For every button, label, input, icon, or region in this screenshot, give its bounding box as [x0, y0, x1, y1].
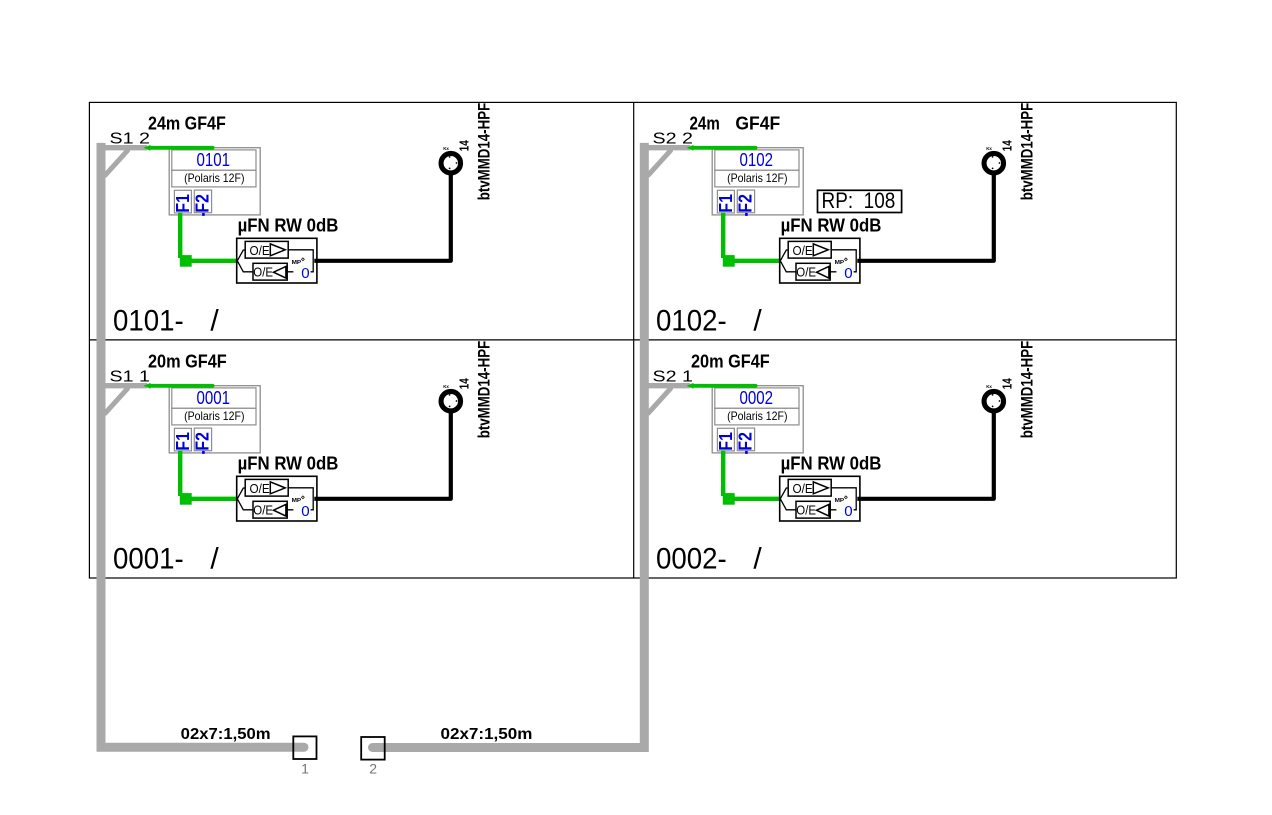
svg-text:S2 1: S2 1: [653, 368, 694, 385]
tap btvMMD14-HPF: [441, 146, 461, 173]
svg-text:0: 0: [844, 504, 852, 520]
svg-text:O/E: O/E: [793, 481, 813, 496]
svg-text:MP: MP: [835, 260, 845, 266]
wire fiber junction to amplifier input: [190, 259, 237, 263]
port F1 of closure 0101: [173, 190, 193, 216]
svg-text:F2: F2: [736, 432, 756, 451]
svg-text:btvMMD14-HPF: btvMMD14-HPF: [1018, 103, 1036, 201]
svg-text:0001-: 0001-: [113, 543, 184, 576]
mast S2 1 crossarm: [642, 386, 690, 414]
svg-text:20m GF4F: 20m GF4F: [691, 352, 770, 372]
svg-text:GF4F: GF4F: [735, 114, 780, 134]
svg-text:O/E: O/E: [796, 264, 816, 279]
junction box 1: [293, 736, 316, 759]
svg-text:btvMMD14-HPF: btvMMD14-HPF: [475, 341, 493, 439]
label measurement point MP: [292, 258, 305, 266]
svg-text:O/E: O/E: [253, 264, 273, 279]
wire coax amplifier to tap: [314, 412, 451, 499]
reference point box RP: 108: [818, 188, 902, 213]
svg-text:0001: 0001: [197, 387, 231, 408]
label unit 0001- /: [113, 543, 219, 576]
wire fiber junction to amplifier input: [733, 259, 780, 263]
svg-text:1: 1: [301, 761, 309, 777]
O/E receiver block: [253, 501, 287, 518]
svg-text:/: /: [753, 543, 762, 576]
svg-text:F1: F1: [173, 432, 193, 451]
svg-text:14: 14: [1001, 378, 1015, 389]
svg-text:(Polaris 12F): (Polaris 12F): [727, 171, 787, 185]
svg-text:/: /: [753, 305, 762, 338]
svg-text:btvMMD14-HPF: btvMMD14-HPF: [475, 103, 493, 201]
wire input fork inside amplifier: [780, 250, 796, 272]
tap btvMMD14-HPF: [441, 384, 461, 411]
wire fiber drop into closure 0002: [687, 383, 756, 389]
svg-text:F1: F1: [716, 432, 736, 451]
port F1 of closure 0002: [716, 428, 736, 454]
svg-text:O/E: O/E: [253, 502, 273, 517]
tap btvMMD14-HPF: [984, 384, 1004, 411]
label measurement point MP: [835, 496, 848, 504]
port F2 of closure 0102: [736, 190, 756, 216]
wire input fork inside amplifier: [780, 488, 796, 510]
svg-text:(Polaris 12F): (Polaris 12F): [184, 171, 244, 185]
frame horizontal divider: [89, 339, 1176, 341]
svg-text:0101-: 0101-: [113, 305, 184, 338]
svg-text:S1 1: S1 1: [110, 368, 151, 385]
splice closure 0002 (Polaris 12F): [712, 386, 803, 453]
svg-text:(Polaris 12F): (Polaris 12F): [727, 409, 787, 423]
svg-text:0101: 0101: [197, 149, 231, 170]
svg-text:O/E: O/E: [250, 481, 270, 496]
svg-text:MP: MP: [835, 498, 845, 504]
mast S2 2 crossarm: [642, 148, 690, 176]
wire input fork inside amplifier: [237, 250, 253, 272]
fiber junction node: [180, 255, 192, 267]
svg-text:0: 0: [301, 266, 309, 282]
wire fiber drop into closure 0101: [144, 145, 213, 151]
wire fiber from port F1 down: [721, 451, 725, 497]
label unit 0002- /: [656, 543, 762, 576]
wire fiber from port F1 down: [178, 451, 182, 497]
svg-text:0002: 0002: [740, 387, 774, 408]
svg-text:O/E: O/E: [796, 502, 816, 517]
svg-text:Kx: Kx: [443, 384, 449, 389]
wire fiber from port F1 down: [178, 213, 182, 259]
tap btvMMD14-HPF: [984, 146, 1004, 173]
wire input fork inside amplifier: [237, 488, 253, 510]
fiber junction node: [180, 493, 192, 505]
amplifier uFN body: [780, 238, 860, 283]
splice closure 0001 (Polaris 12F): [169, 386, 260, 453]
wire internal output link: [287, 250, 313, 272]
svg-text:F2: F2: [193, 194, 213, 213]
svg-text:/: /: [210, 543, 219, 576]
wire internal output link: [830, 250, 856, 272]
svg-text:O/E: O/E: [250, 243, 270, 258]
svg-text:0: 0: [301, 504, 309, 520]
svg-text:20m GF4F: 20m GF4F: [148, 352, 227, 372]
frame vertical divider: [633, 102, 635, 578]
svg-text:µFN RW 0dB: µFN RW 0dB: [238, 454, 339, 474]
wire coax amplifier to tap: [857, 412, 994, 499]
label measurement point MP: [835, 258, 848, 266]
amplifier uFN body: [237, 238, 317, 283]
O/E receiver block: [253, 263, 287, 280]
svg-text:02x7:1,50m: 02x7:1,50m: [441, 726, 533, 743]
trunk cable S1 (left): [101, 143, 304, 747]
svg-text:F2: F2: [193, 432, 213, 451]
splice closure 0102 (Polaris 12F): [712, 148, 803, 215]
wire coax amplifier to tap: [857, 174, 994, 261]
wire internal output link: [830, 488, 856, 510]
svg-text:btvMMD14-HPF: btvMMD14-HPF: [1018, 341, 1036, 439]
mast S1 1 crossarm: [99, 386, 147, 414]
wire fiber drop into closure 0001: [144, 383, 213, 389]
svg-text:(Polaris 12F): (Polaris 12F): [184, 409, 244, 423]
port F2 of closure 0002: [736, 428, 756, 454]
wire fiber junction to amplifier input: [190, 497, 237, 501]
wire fiber junction to amplifier input: [733, 497, 780, 501]
splice closure 0101 (Polaris 12F): [169, 148, 260, 215]
O/E transmitter block: [245, 241, 288, 258]
svg-text:S1 2: S1 2: [110, 130, 151, 147]
svg-text:14: 14: [1001, 140, 1015, 151]
svg-text:RP: 108: RP: 108: [822, 188, 896, 213]
port F1 of closure 0001: [173, 428, 193, 454]
port F1 of closure 0102: [716, 190, 736, 216]
svg-text:0002-: 0002-: [656, 543, 727, 576]
fiber junction node: [723, 255, 735, 267]
svg-text:2: 2: [369, 761, 377, 777]
wire internal output link: [287, 488, 313, 510]
svg-text:/: /: [210, 305, 219, 338]
svg-text:0102: 0102: [740, 149, 774, 170]
svg-text:F2: F2: [736, 194, 756, 213]
svg-text:MP: MP: [292, 260, 302, 266]
svg-text:14: 14: [458, 140, 472, 151]
fiber junction node: [723, 493, 735, 505]
svg-text:S2 2: S2 2: [653, 130, 694, 147]
mast S1 2 crossarm: [99, 148, 147, 176]
svg-text:24m GF4F: 24m GF4F: [148, 114, 226, 134]
svg-text:MP: MP: [292, 498, 302, 504]
O/E transmitter block: [788, 241, 831, 258]
svg-text:Kx: Kx: [443, 146, 449, 151]
svg-text:µFN RW 0dB: µFN RW 0dB: [238, 216, 339, 236]
amplifier uFN body: [780, 476, 860, 521]
O/E transmitter block: [788, 479, 831, 496]
label unit 0101- /: [113, 305, 219, 338]
svg-text:02x7:1,50m: 02x7:1,50m: [181, 726, 271, 743]
label unit 0102- /: [656, 305, 762, 338]
junction box 2: [361, 737, 385, 760]
svg-text:F1: F1: [173, 194, 193, 213]
svg-text:µFN RW 0dB: µFN RW 0dB: [781, 454, 882, 474]
svg-text:0102-: 0102-: [656, 305, 727, 338]
svg-text:O/E: O/E: [793, 243, 813, 258]
svg-text:F1: F1: [716, 194, 736, 213]
svg-text:0: 0: [844, 266, 852, 282]
svg-text:Kx: Kx: [986, 384, 992, 389]
O/E transmitter block: [245, 479, 288, 496]
svg-text:24m: 24m: [690, 114, 720, 134]
port F2 of closure 0101: [193, 190, 213, 216]
svg-text:14: 14: [458, 378, 472, 389]
label measurement point MP: [292, 496, 305, 504]
O/E receiver block: [796, 501, 830, 518]
svg-text:µFN RW 0dB: µFN RW 0dB: [781, 216, 882, 236]
trunk cable S2 (right): [373, 143, 645, 748]
wire fiber drop into closure 0102: [687, 145, 756, 151]
O/E receiver block: [796, 263, 830, 280]
svg-text:Kx: Kx: [986, 146, 992, 151]
frame border: [89, 102, 1176, 578]
label fiber cable 24m GF4F: [690, 114, 781, 134]
port F2 of closure 0001: [193, 428, 213, 454]
amplifier uFN body: [237, 476, 317, 521]
wire fiber from port F1 down: [721, 213, 725, 259]
wire coax amplifier to tap: [314, 174, 451, 261]
